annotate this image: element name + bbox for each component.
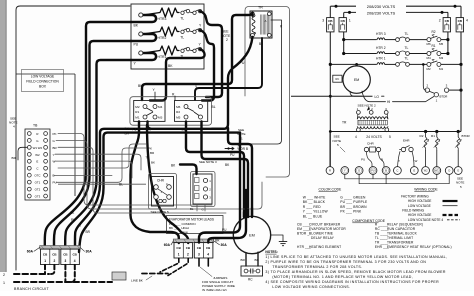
svg-text:BL __ BLUE: BL __ BLUE xyxy=(303,215,323,219)
terminal PU on low voltage terminal board xyxy=(369,167,377,175)
svg-text:BR: BR xyxy=(215,239,220,243)
svg-text:30A: 30A xyxy=(221,243,228,247)
svg-text:HEATING ELEMENT: HEATING ELEMENT xyxy=(309,245,341,249)
field wire arrow Y OR B xyxy=(225,147,234,150)
svg-text:208/230 VOLTS: 208/230 VOLTS xyxy=(367,10,396,15)
wire PU from TB row OT1 xyxy=(56,181,118,183)
svg-text:B: B xyxy=(385,169,387,173)
svg-text:LO: LO xyxy=(375,95,380,99)
svg-text:CHR: CHR xyxy=(367,142,374,146)
svg-text:HI: HI xyxy=(387,100,390,104)
routing outline around motor speed connector xyxy=(191,172,216,207)
transformer TR secondary terminals 4 5 xyxy=(357,128,361,132)
wire BK to run capacitor xyxy=(257,252,259,266)
terminal block TB row E xyxy=(27,159,31,163)
wire BK into motor connector xyxy=(180,165,197,175)
wire W from TB xyxy=(55,161,132,178)
svg-text:1: 1 xyxy=(349,18,351,22)
evaporator motor leads legend box xyxy=(167,216,224,234)
svg-text:RUN CAPACITOR: RUN CAPACITOR xyxy=(387,227,416,231)
wire R into sequencer R2 xyxy=(174,96,176,100)
svg-text:HIGH VOLTAGE: HIGH VOLTAGE xyxy=(408,213,431,217)
wire BL sequencer to evaporator motor xyxy=(186,121,244,217)
right rail below CB4 xyxy=(460,32,462,132)
terminal B on low voltage terminal board xyxy=(382,167,390,175)
svg-text:LOW VOLTAGE NOTE 4: LOW VOLTAGE NOTE 4 xyxy=(408,218,443,222)
svg-text:BK: BK xyxy=(138,84,143,88)
svg-text:M3: M3 xyxy=(439,56,443,60)
svg-text:R: R xyxy=(329,169,331,173)
wire from BTDR terminal 3 to right rail xyxy=(449,89,461,91)
svg-text:TRANSFORMER: TRANSFORMER xyxy=(387,241,414,245)
svg-text:BR: BR xyxy=(86,230,91,234)
svg-text:HTR1: HTR1 xyxy=(158,55,167,59)
svg-text:M1: M1 xyxy=(439,67,443,71)
terminal G on low voltage terminal board xyxy=(355,167,363,175)
svg-text:TL: TL xyxy=(405,32,409,36)
svg-text:TL: TL xyxy=(405,57,409,61)
svg-text:2: 2 xyxy=(187,253,189,257)
svg-text:24 VOLTS: 24 VOLTS xyxy=(366,135,382,139)
svg-text:EHR: EHR xyxy=(403,139,410,143)
svg-text:HTR3: HTR3 xyxy=(158,17,167,21)
svg-text:Y _____ LOW: Y _____ LOW xyxy=(169,230,188,234)
circuit breaker CB4 (ladder) xyxy=(456,18,463,32)
wire to center breaker CB2 xyxy=(147,125,188,243)
svg-text:1) LINE SPLICE TO BE ATTA: 1) LINE SPLICE TO BE ATTACHED TO UNUSED … xyxy=(265,255,447,259)
wire PU sequencer to center breaker CB1 xyxy=(131,121,179,243)
relay coil R2 xyxy=(424,130,427,133)
svg-text:T: T xyxy=(146,156,148,160)
terminal block TB row R xyxy=(27,132,31,136)
svg-text:R2: R2 xyxy=(431,30,435,34)
svg-text:R ___ RED: R ___ RED xyxy=(303,205,321,209)
terminal R on low voltage terminal board xyxy=(326,167,334,175)
wire R from transformer to low-voltage circuit xyxy=(250,20,282,144)
terminal of HTR3 xyxy=(139,13,143,17)
svg-text:1: 1 xyxy=(241,136,243,140)
circuit breaker bank mounting strip xyxy=(173,239,214,243)
jumper dashed wires under center breakers xyxy=(160,258,179,272)
svg-text:BTDR: BTDR xyxy=(462,134,471,138)
svg-text:BR: BR xyxy=(241,258,246,262)
svg-text:M6: M6 xyxy=(176,105,181,109)
wire PU heater feed drop xyxy=(54,41,131,246)
svg-text:G: G xyxy=(202,208,204,212)
svg-text:OTC: OTC xyxy=(34,174,40,178)
svg-text:C: C xyxy=(36,167,38,171)
svg-text:2) PURPLE WIRE TO BE ON: 2) PURPLE WIRE TO BE ON TRANSFORMER TERM… xyxy=(265,260,426,264)
circuit breaker CB1-CB2 pair xyxy=(174,243,193,258)
svg-text:OT3: OT3 xyxy=(35,194,41,198)
relay CHR box xyxy=(152,177,174,207)
terminal C on low voltage terminal board xyxy=(394,167,402,175)
terminal block TB row W2 xyxy=(27,152,31,156)
svg-text:Y: Y xyxy=(53,153,55,157)
wire BL long run xyxy=(58,183,146,185)
ground lug xyxy=(112,272,126,280)
svg-text:4: 4 xyxy=(466,18,468,22)
svg-text:BK: BK xyxy=(168,64,173,68)
svg-text:TL: TL xyxy=(180,17,184,21)
wire BK heater feed (leftmost drop) xyxy=(45,22,131,246)
svg-text:30A: 30A xyxy=(86,250,93,254)
svg-text:SEE NOTE 5: SEE NOTE 5 xyxy=(151,210,170,214)
svg-text:CIRCUIT BREAKER: CIRCUIT BREAKER xyxy=(309,223,341,227)
svg-text:CHR: CHR xyxy=(157,178,165,182)
resistor HTR1 heating element xyxy=(143,46,179,55)
svg-text:LOW VOLTAGE: LOW VOLTAGE xyxy=(408,204,431,208)
svg-text:R2: R2 xyxy=(420,134,424,138)
evaporator motor EM (ladder) xyxy=(355,63,358,66)
svg-text:RC: RC xyxy=(248,278,253,282)
svg-text:R1: R1 xyxy=(135,110,139,114)
svg-text:4: 4 xyxy=(13,125,15,129)
svg-text:G: G xyxy=(457,169,459,173)
svg-text:M4: M4 xyxy=(158,105,163,109)
sequencer contact M6-M5 for HTR 3 xyxy=(427,38,431,42)
svg-text:TRANSFORMER TERMINAL 2 FOR: TRANSFORMER TERMINAL 2 FOR 208 VOLTS. xyxy=(272,265,362,269)
relay CHR terminals xyxy=(154,185,159,190)
svg-text:1: 1 xyxy=(3,281,5,285)
terminal G on low voltage terminal board xyxy=(454,167,462,175)
svg-text:60A: 60A xyxy=(164,243,171,247)
svg-text:WIRING CODE: WIRING CODE xyxy=(414,187,438,191)
rail to CB4 (right) xyxy=(460,6,462,17)
svg-text:BLOWER TIME: BLOWER TIME xyxy=(309,232,334,236)
svg-text:BL: BL xyxy=(119,183,123,187)
svg-text:W: W xyxy=(53,160,56,164)
relay coil BTDR xyxy=(457,130,460,133)
svg-text:BL: BL xyxy=(190,207,194,211)
svg-text:SEE NOTE 2: SEE NOTE 2 xyxy=(358,103,377,107)
svg-text:M6: M6 xyxy=(427,42,431,46)
svg-text:1: 1 xyxy=(178,253,180,257)
svg-text:Y OR B: Y OR B xyxy=(237,147,249,151)
svg-text:LOW VOLTAGE: LOW VOLTAGE xyxy=(31,75,55,79)
terminal of HTR2 xyxy=(139,32,143,36)
terminal block TB row OT2 xyxy=(27,187,31,191)
blower motor speed connector block xyxy=(193,174,212,204)
svg-text:PU ___ PURPLE: PU ___ PURPLE xyxy=(340,200,368,204)
svg-text:Y ___ YELLOW: Y ___ YELLOW xyxy=(303,210,329,214)
svg-text:BL: BL xyxy=(212,105,216,109)
svg-text:LOW VOLTAGE WIRING CONNECTI: LOW VOLTAGE WIRING CONNECTIONS. xyxy=(272,285,350,289)
wire HI motor lead to BTDR xyxy=(362,91,386,102)
svg-text:2: 2 xyxy=(54,259,56,263)
svg-text:EMERGENCY HEAT RELAY (OPTIO: EMERGENCY HEAT RELAY (OPTIONAL) xyxy=(387,245,452,249)
svg-text:PK: PK xyxy=(148,146,152,150)
svg-text:M1: M1 xyxy=(135,116,140,120)
rail from L2 to CB1 xyxy=(343,12,345,17)
circuit breaker bank mounting strip xyxy=(40,246,80,250)
svg-text:SEE NOTE 3: SEE NOTE 3 xyxy=(199,160,217,164)
svg-text:TL: TL xyxy=(180,36,184,40)
svg-text:PU: PU xyxy=(71,218,76,222)
svg-text:G ____ GREEN: G ____ GREEN xyxy=(340,195,366,199)
svg-text:G: G xyxy=(358,169,360,173)
heater element box enclosure xyxy=(131,4,204,69)
wire B from TB row OTC xyxy=(54,174,112,176)
wire G from TB xyxy=(56,140,262,209)
svg-text:HTR 2: HTR 2 xyxy=(376,46,386,50)
svg-text:EVAPORATOR MOTOR: EVAPORATOR MOTOR xyxy=(309,227,346,231)
svg-text:2: 2 xyxy=(3,273,5,277)
svg-text:M2: M2 xyxy=(135,105,140,109)
diagram outer border xyxy=(16,6,130,270)
svg-text:M2: M2 xyxy=(427,67,431,71)
svg-text:3: 3 xyxy=(322,18,324,22)
terminal block TB row OT1 xyxy=(27,180,31,184)
relay coil R1 xyxy=(435,130,438,133)
svg-text:RC: RC xyxy=(336,77,340,81)
svg-text:TL: TL xyxy=(405,46,409,50)
svg-text:PU: PU xyxy=(132,128,137,132)
relay R1 contacts xyxy=(143,105,147,109)
evaporator motor lead wires entering EM xyxy=(243,212,245,217)
svg-text:208/230 VOLTS: 208/230 VOLTS xyxy=(367,4,396,9)
sequencer contact M2-M1 for HTR 1 xyxy=(427,62,431,66)
svg-text:60A: 60A xyxy=(27,250,34,254)
ground symbol at EM xyxy=(271,235,283,242)
left rail below CB1 xyxy=(343,32,345,54)
wire Y heater feed drop xyxy=(65,60,131,246)
svg-text:HIGH VOLTAGE: HIGH VOLTAGE xyxy=(408,199,431,203)
terminal O on low voltage terminal board xyxy=(445,167,453,175)
svg-text:W2: W2 xyxy=(35,153,40,157)
circuit breaker CB3 (ladder) xyxy=(327,18,334,32)
svg-text:M4: M4 xyxy=(427,56,431,60)
svg-text:3) TO PLACE AIRHANDLER IN: 3) TO PLACE AIRHANDLER IN SLOW SPEED, RE… xyxy=(265,270,445,274)
svg-text:LINE BK: LINE BK xyxy=(131,279,144,283)
wire LO motor lead xyxy=(329,95,332,98)
svg-text:BR ___ BROWN: BR ___ BROWN xyxy=(340,205,367,209)
svg-text:PU: PU xyxy=(230,153,235,157)
terminal block TB row OTC xyxy=(27,173,31,177)
rung wire for HTR 2 xyxy=(344,53,377,55)
svg-text:B: B xyxy=(381,157,383,161)
svg-text:M3: M3 xyxy=(158,116,163,120)
svg-text:PU: PU xyxy=(222,228,227,232)
page edge shading (decorative scan edge) xyxy=(0,0,6,272)
svg-text:PK ___ PINK: PK ___ PINK xyxy=(340,210,362,214)
routing outline around transformer TR xyxy=(245,7,290,178)
wire BK exit of HTR1 down to sequencer xyxy=(150,49,205,100)
wire Y sequencer to evaporator motor xyxy=(202,121,249,217)
svg-text:HTR 1: HTR 1 xyxy=(376,57,386,61)
resistor HTR2 heating element xyxy=(143,27,179,36)
wire BK transformer primary to sequencer xyxy=(142,13,253,100)
supply line L2 208/230 VOLTS xyxy=(344,11,448,13)
svg-text:PU: PU xyxy=(361,157,365,161)
svg-text:TR: TR xyxy=(342,121,347,125)
svg-text:(MOTOR) TERMINAL NO. 1 AND: (MOTOR) TERMINAL NO. 1 AND REPLACE WITH … xyxy=(272,275,413,279)
circuit breaker CB3-CB4 pair xyxy=(61,249,80,264)
svg-text:CB: CB xyxy=(458,19,463,23)
run capacitor RC xyxy=(241,266,263,276)
wire R terminal to 24 volt bus xyxy=(329,132,331,167)
circuit breaker CB2 (ladder) xyxy=(443,18,450,32)
svg-text:R2: R2 xyxy=(176,110,180,114)
field wiring branch circuit 1 (dashed) xyxy=(14,281,112,283)
svg-text:CB: CB xyxy=(340,19,345,23)
svg-text:Y: Y xyxy=(344,169,346,173)
svg-text:FACTORY WIRING: FACTORY WIRING xyxy=(401,194,429,198)
wire BR to run capacitor xyxy=(245,253,247,266)
evaporator motor EM circle xyxy=(233,216,270,253)
wire BK sequencer feed drop to CB4 xyxy=(75,129,150,246)
relay R2 contacts xyxy=(184,105,188,109)
svg-text:W2: W2 xyxy=(424,170,428,173)
left rail below CB3 xyxy=(329,32,331,167)
svg-text:HTR2: HTR2 xyxy=(158,36,167,40)
svg-text:DELAY RELAY: DELAY RELAY xyxy=(311,236,335,240)
svg-text:BTDR _: BTDR _ xyxy=(297,232,309,236)
svg-text:PU: PU xyxy=(134,43,139,47)
svg-text:CB: CB xyxy=(328,19,333,23)
svg-text:BR: BR xyxy=(125,132,130,136)
svg-text:BTDR: BTDR xyxy=(440,94,448,98)
svg-text:FIELD WIRING: FIELD WIRING xyxy=(402,209,424,213)
relay R1 sequencer box xyxy=(134,101,165,122)
svg-text:E: E xyxy=(36,160,38,164)
wire BR from TB xyxy=(58,147,226,213)
sequencer contact M4-M3 for HTR 2 xyxy=(427,52,431,56)
wire B from transformer secondary xyxy=(195,38,262,100)
svg-text:OT1: OT1 xyxy=(35,181,41,185)
svg-text:W1 W2: W1 W2 xyxy=(33,146,43,150)
wire from M2 contact down to BTDR terminal 2 xyxy=(423,64,426,90)
svg-text:E: E xyxy=(413,169,415,173)
svg-text:BK: BK xyxy=(151,160,155,164)
wire rail to transformer terminal 1 xyxy=(330,115,358,132)
transformer TR terminals xyxy=(251,12,255,16)
svg-text:2: 2 xyxy=(226,38,228,42)
low voltage field connection box label xyxy=(16,73,75,75)
run capacitor RC (ladder) xyxy=(333,75,342,82)
svg-text:W ___ WHITE: W ___ WHITE xyxy=(303,195,326,199)
svg-text:TERMINAL BLOCK: TERMINAL BLOCK xyxy=(387,232,418,236)
motor connector terminals 1 2 3 xyxy=(203,178,207,182)
rail from L1 to CB3 xyxy=(329,6,331,17)
wire PU into center CB3 from right xyxy=(199,133,240,243)
svg-text:4) SEE COMPOSITE WIRING DI: 4) SEE COMPOSITE WIRING DIAGRAMS IN INST… xyxy=(265,280,439,284)
supply line L1 208/230 VOLTS xyxy=(331,5,462,7)
svg-text:CB: CB xyxy=(445,19,450,23)
svg-text:TB: TB xyxy=(33,124,38,128)
wire Y into sequencer R1 xyxy=(154,92,156,100)
terminal block TB row W1 W2 xyxy=(27,146,31,150)
svg-text:5: 5 xyxy=(337,143,339,147)
rail to CB2 (right) xyxy=(447,12,449,17)
svg-text:A: A xyxy=(265,19,267,23)
svg-text:4: 4 xyxy=(355,135,357,139)
terminal of HTR1 xyxy=(139,51,143,55)
wire Y exit of HTR3 to sequencer xyxy=(200,11,222,97)
svg-text:2: 2 xyxy=(439,18,441,22)
svg-text:3: 3 xyxy=(65,259,67,263)
svg-text:M5: M5 xyxy=(439,42,443,46)
circuit breaker CB1 (ladder) xyxy=(339,18,346,32)
wire BR into center CB4 from right xyxy=(208,190,246,243)
svg-text:COLOR CODE: COLOR CODE xyxy=(319,187,343,191)
svg-text:B: B xyxy=(259,42,261,46)
svg-text:EM: EM xyxy=(249,234,255,238)
svg-text:R: R xyxy=(36,132,38,136)
rung wire for HTR 1 xyxy=(330,63,376,65)
terminal block TB row C xyxy=(27,166,31,170)
wire stubs below motor connector xyxy=(196,204,198,211)
terminal block TB row OT3 xyxy=(27,194,31,198)
rung wire for HTR 3 xyxy=(344,39,377,41)
wire BR drop joining breaker bundle xyxy=(79,133,240,252)
field wiring branch circuit 2 (dashed) xyxy=(14,273,49,275)
svg-text:C: C xyxy=(396,169,398,173)
svg-text:HTR 3: HTR 3 xyxy=(376,32,386,36)
svg-text:BK __ BLACK: BK __ BLACK xyxy=(303,200,326,204)
svg-text:BOX: BOX xyxy=(39,85,47,89)
svg-text:W: W xyxy=(415,159,418,163)
svg-text:1: 1 xyxy=(44,259,46,263)
wire BR into terminal block left side xyxy=(18,147,27,160)
terminal E on low voltage terminal board xyxy=(410,167,418,175)
wire PU transformer primary drop xyxy=(212,37,253,129)
svg-text:4: 4 xyxy=(74,259,76,263)
svg-text:TR: TR xyxy=(258,6,263,10)
svg-text:PK: PK xyxy=(53,132,57,136)
svg-text:TL ____: TL ____ xyxy=(375,236,388,240)
svg-text:BRANCH CIRCUIT: BRANCH CIRCUIT xyxy=(14,287,49,291)
svg-text:THERMAL LIMIT: THERMAL LIMIT xyxy=(387,236,413,240)
svg-text:RELAY (SEQUENCER): RELAY (SEQUENCER) xyxy=(387,223,423,227)
right rail below CB2 xyxy=(447,32,449,54)
svg-text:FIELD CONNECTION: FIELD CONNECTION xyxy=(26,80,59,84)
svg-text:3: 3 xyxy=(198,253,200,257)
terminal block TB row G xyxy=(27,139,31,143)
svg-text:5: 5 xyxy=(389,135,391,139)
svg-text:M5: M5 xyxy=(176,116,181,120)
wire BK sequencer down xyxy=(148,121,225,128)
circuit breaker CB1-CB2 pair xyxy=(41,249,60,264)
svg-text:R1: R1 xyxy=(431,134,435,138)
terminal W2 on low voltage terminal board xyxy=(422,167,430,175)
24 volt bus wire xyxy=(330,131,461,133)
wire PU common to evaporator motor xyxy=(228,128,252,217)
svg-text:PU: PU xyxy=(240,61,245,65)
svg-text:Y: Y xyxy=(398,159,400,163)
svg-text:EVAPORATOR MOTOR LEADS: EVAPORATOR MOTOR LEADS xyxy=(169,217,214,221)
terminal board jumper bracket 1 xyxy=(345,174,437,178)
svg-text:OT2: OT2 xyxy=(35,188,41,192)
relay R2 sequencer box xyxy=(175,101,208,122)
wire Y from TB xyxy=(55,154,141,170)
svg-text:W1: W1 xyxy=(435,170,439,173)
svg-text:BR: BR xyxy=(12,156,17,160)
terminal Y on low voltage terminal board xyxy=(341,167,349,175)
svg-text:4: 4 xyxy=(207,253,209,257)
svg-text:PU: PU xyxy=(371,170,375,173)
routing outline around relay CHR xyxy=(149,174,177,210)
wire PK from TB xyxy=(58,134,212,206)
terminal board jumper bracket 2 xyxy=(359,174,449,183)
svg-text:NOTES:: NOTES: xyxy=(265,250,277,254)
terminal W1 on low voltage terminal board xyxy=(433,167,441,175)
svg-text:EM: EM xyxy=(354,78,359,82)
wire Y exit of HTR2 to sequencer xyxy=(200,30,214,100)
resistor HTR3 heating element xyxy=(143,8,179,17)
circuit breaker CB3-CB4 pair xyxy=(194,243,213,258)
routing outline around sequencer relays xyxy=(130,97,212,126)
